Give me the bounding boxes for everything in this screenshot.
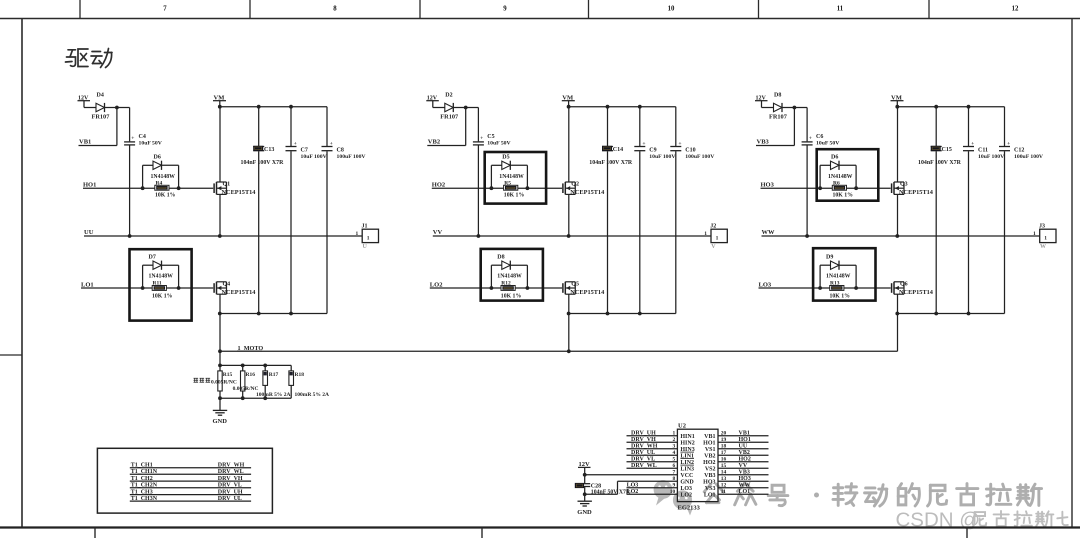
svg-text:D7: D7 (149, 255, 156, 261)
svg-text:100uF 100V: 100uF 100V (685, 154, 715, 160)
svg-text:10K 1%: 10K 1% (833, 193, 854, 199)
svg-text:10uF 100V: 10uF 100V (649, 154, 676, 160)
svg-text:VV: VV (739, 463, 748, 469)
svg-text:EG2133: EG2133 (678, 505, 701, 512)
svg-text:1N4148W: 1N4148W (828, 174, 853, 180)
svg-text:1: 1 (716, 236, 719, 242)
svg-text:GND: GND (213, 418, 228, 425)
svg-text:DRV_VH: DRV_VH (631, 437, 656, 443)
svg-text:C4: C4 (139, 134, 146, 140)
svg-text:C12: C12 (1014, 147, 1024, 153)
svg-text:1: 1 (1044, 236, 1047, 242)
svg-text:LO2: LO2 (680, 492, 692, 498)
svg-text:HO2: HO2 (703, 460, 715, 466)
svg-text:C13: C13 (264, 147, 274, 153)
svg-text:T1_CH3: T1_CH3 (131, 489, 153, 495)
svg-text:1: 1 (704, 231, 707, 237)
svg-text:R15: R15 (223, 372, 233, 378)
svg-text:104nF 100V X7R: 104nF 100V X7R (918, 160, 962, 166)
svg-text:C15: C15 (942, 147, 952, 153)
svg-text:T1_CH1N: T1_CH1N (131, 469, 158, 475)
svg-text:NCEP15T14: NCEP15T14 (899, 189, 934, 196)
svg-text:11: 11 (837, 6, 844, 13)
svg-text:T1_CH2N: T1_CH2N (131, 483, 158, 489)
svg-text:14: 14 (721, 470, 727, 476)
svg-text:D5: D5 (502, 155, 509, 161)
svg-text:DRV_UL: DRV_UL (218, 496, 242, 502)
svg-text:T1_CH2: T1_CH2 (131, 476, 153, 482)
svg-text:1N4148W: 1N4148W (499, 174, 524, 180)
svg-text:10K 1%: 10K 1% (830, 294, 851, 300)
svg-text:VB1: VB1 (79, 139, 91, 146)
svg-text:100uF 100V: 100uF 100V (1014, 154, 1044, 160)
svg-text:+: + (330, 141, 333, 147)
svg-text:LO2: LO2 (430, 281, 443, 288)
svg-text:DRV_VH: DRV_VH (218, 476, 243, 482)
svg-text:D6: D6 (154, 155, 161, 161)
svg-text:7: 7 (163, 6, 167, 13)
svg-text:18: 18 (721, 444, 727, 450)
svg-text:HO1: HO1 (703, 440, 715, 446)
svg-text:VV: VV (433, 229, 443, 236)
svg-text:15: 15 (721, 463, 727, 469)
svg-text:HO2: HO2 (739, 456, 751, 462)
svg-text:W: W (1040, 244, 1046, 250)
svg-text:LO3: LO3 (680, 486, 692, 492)
svg-text:104nF 50V X7R: 104nF 50V X7R (591, 489, 631, 495)
svg-text:104nF 100V X7R: 104nF 100V X7R (241, 160, 285, 166)
svg-text:Q6: Q6 (900, 282, 908, 288)
svg-text:J2: J2 (710, 223, 716, 229)
svg-text:+: + (642, 141, 645, 147)
svg-text:NCEP15T14: NCEP15T14 (570, 189, 605, 196)
svg-text:VB2: VB2 (704, 453, 715, 459)
svg-text:16: 16 (721, 457, 727, 463)
svg-text:D6: D6 (831, 155, 838, 161)
svg-text:DRV_WL: DRV_WL (218, 469, 244, 475)
svg-text:17: 17 (721, 450, 727, 456)
svg-text:C5: C5 (487, 134, 494, 140)
svg-text:V: V (711, 244, 716, 250)
svg-text:DRV_UH: DRV_UH (218, 489, 243, 495)
svg-text:VB1: VB1 (739, 430, 750, 436)
svg-text:10uF 50V: 10uF 50V (139, 141, 163, 147)
svg-text:C14: C14 (613, 147, 623, 153)
svg-text:VB2: VB2 (428, 139, 440, 146)
svg-text:Q5: Q5 (571, 282, 579, 288)
svg-text:20: 20 (721, 431, 727, 437)
svg-text:C9: C9 (649, 147, 656, 153)
svg-text:T1_CH1: T1_CH1 (131, 463, 153, 469)
svg-text:VB3: VB3 (757, 139, 770, 146)
svg-text:R18: R18 (295, 372, 305, 378)
svg-text:8: 8 (333, 6, 337, 13)
svg-text:10uF 50V: 10uF 50V (487, 141, 511, 147)
svg-text:VB3: VB3 (739, 469, 750, 475)
svg-text:Q4: Q4 (223, 282, 231, 288)
svg-text:VCC: VCC (680, 473, 693, 479)
svg-text:U2: U2 (678, 422, 686, 429)
svg-text:+: + (294, 141, 297, 147)
svg-text:LIN3: LIN3 (680, 466, 694, 472)
svg-text:19: 19 (721, 437, 727, 443)
svg-text:100mR 5% 2A: 100mR 5% 2A (256, 392, 291, 398)
svg-text:9: 9 (503, 6, 507, 13)
svg-text:1N4148W: 1N4148W (826, 274, 851, 280)
svg-text:HO3: HO3 (761, 182, 775, 189)
svg-text:NCEP15T14: NCEP15T14 (570, 289, 605, 296)
svg-text:Q1: Q1 (223, 182, 231, 188)
svg-text:C8: C8 (337, 147, 344, 153)
svg-text:HO3: HO3 (739, 476, 751, 482)
svg-text:UU: UU (739, 443, 748, 449)
svg-text:1: 1 (1033, 231, 1036, 237)
svg-text:VB2: VB2 (739, 450, 750, 456)
svg-text:VS2: VS2 (705, 466, 716, 472)
svg-text:11: 11 (721, 489, 726, 495)
svg-text:104nF 100V X7R: 104nF 100V X7R (589, 160, 633, 166)
svg-text:LO1: LO1 (739, 489, 751, 495)
svg-text:NCEP15T14: NCEP15T14 (222, 189, 257, 196)
svg-text:10K 1%: 10K 1% (501, 294, 522, 300)
svg-text:DRV_UL: DRV_UL (631, 450, 655, 456)
svg-text:HO2: HO2 (432, 182, 445, 189)
svg-text:NCEP15T14: NCEP15T14 (899, 289, 934, 296)
svg-text:VB1: VB1 (704, 434, 715, 440)
svg-text:10uF 100V: 10uF 100V (301, 154, 328, 160)
svg-text:Q2: Q2 (571, 182, 579, 188)
svg-text:VB3: VB3 (704, 473, 715, 479)
svg-text:1: 1 (367, 236, 370, 242)
svg-text:+: + (480, 135, 483, 141)
svg-text:HO1: HO1 (739, 437, 751, 443)
svg-text:D9: D9 (826, 255, 833, 261)
svg-text:GND: GND (680, 479, 694, 485)
svg-text:1N4148W: 1N4148W (497, 274, 522, 280)
svg-text:1: 1 (356, 231, 359, 237)
svg-text:13: 13 (721, 476, 727, 482)
svg-text:WW: WW (739, 482, 751, 488)
svg-text:FR107: FR107 (440, 114, 458, 121)
svg-text:C6: C6 (816, 134, 823, 140)
svg-text:+: + (809, 135, 812, 141)
svg-text:1N4148W: 1N4148W (149, 274, 174, 280)
svg-text:10K 1%: 10K 1% (152, 294, 173, 300)
svg-text:+: + (1007, 141, 1010, 147)
svg-text:DRV_VL: DRV_VL (631, 456, 655, 462)
svg-text:LO1: LO1 (704, 492, 716, 498)
svg-text:UU: UU (84, 229, 94, 236)
svg-text:10uF 100V: 10uF 100V (978, 154, 1005, 160)
svg-text:10uF 50V: 10uF 50V (816, 141, 840, 147)
svg-text:NCEP15T14: NCEP15T14 (222, 289, 257, 296)
svg-text:10: 10 (668, 6, 675, 13)
svg-text:12: 12 (721, 483, 727, 489)
svg-text:+: + (678, 141, 681, 147)
svg-text:0.005R/NC: 0.005R/NC (233, 386, 259, 392)
svg-text:VS3: VS3 (705, 486, 716, 492)
svg-text:0.005R/NC: 0.005R/NC (211, 380, 237, 386)
svg-text:LO1: LO1 (81, 281, 94, 288)
svg-text:GND: GND (577, 509, 592, 516)
svg-text:C10: C10 (685, 147, 695, 153)
svg-text:D8: D8 (497, 255, 504, 261)
svg-text:D8: D8 (774, 93, 781, 99)
svg-text:FR107: FR107 (769, 114, 787, 121)
svg-text:LO3: LO3 (759, 281, 772, 288)
svg-text:U: U (363, 244, 368, 250)
svg-text:Q3: Q3 (900, 182, 908, 188)
svg-text:1N4148W: 1N4148W (151, 174, 176, 180)
svg-text:HIN2: HIN2 (680, 440, 694, 446)
svg-text:J1: J1 (362, 223, 368, 229)
svg-text:DRV_UH: DRV_UH (631, 430, 656, 436)
svg-text:LO3: LO3 (627, 483, 639, 489)
svg-text:C11: C11 (978, 147, 988, 153)
svg-text:+: + (131, 135, 134, 141)
svg-text:DRV_VL: DRV_VL (218, 483, 242, 489)
svg-text:J3: J3 (1039, 223, 1045, 229)
svg-text:FR107: FR107 (92, 114, 110, 121)
svg-text:VS1: VS1 (705, 447, 716, 453)
svg-text:10K 1%: 10K 1% (504, 193, 525, 199)
svg-text:DRV_WL: DRV_WL (631, 463, 657, 469)
svg-text:DRV_WH: DRV_WH (631, 443, 658, 449)
svg-text:D2: D2 (445, 93, 452, 99)
svg-text:D4: D4 (97, 93, 104, 99)
svg-text:HIN1: HIN1 (680, 434, 694, 440)
svg-text:10K 1%: 10K 1% (155, 193, 176, 199)
svg-text:100uF 100V: 100uF 100V (337, 154, 367, 160)
svg-text:C7: C7 (301, 147, 308, 153)
svg-text:+: + (971, 141, 974, 147)
svg-text:WW: WW (762, 229, 776, 236)
svg-text:HO1: HO1 (83, 182, 96, 189)
svg-text:R16: R16 (246, 372, 256, 378)
svg-text:100mR 5% 2A: 100mR 5% 2A (295, 392, 330, 398)
svg-text:12: 12 (1012, 6, 1019, 13)
svg-text:T1_CH3N: T1_CH3N (131, 496, 158, 502)
svg-text:HO3: HO3 (703, 479, 715, 485)
svg-text:R17: R17 (269, 372, 279, 378)
svg-text:DRV_WH: DRV_WH (218, 463, 245, 469)
